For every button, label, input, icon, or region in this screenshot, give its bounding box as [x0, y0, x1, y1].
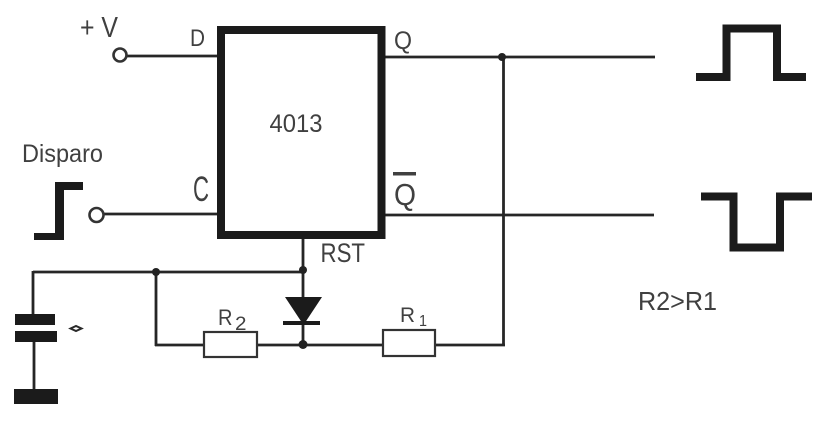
svg-text:R: R	[400, 304, 415, 327]
svg-text:C: C	[193, 170, 209, 209]
svg-text:+ V: + V	[80, 12, 119, 44]
svg-text:4013: 4013	[270, 110, 323, 138]
svg-text:Q: Q	[394, 177, 416, 212]
svg-text:R2>R1: R2>R1	[638, 286, 717, 316]
svg-text:D: D	[190, 25, 205, 52]
svg-text:Disparo: Disparo	[22, 140, 103, 168]
svg-text:1: 1	[419, 313, 427, 330]
svg-text:Q: Q	[394, 27, 412, 55]
svg-text:R: R	[218, 305, 233, 330]
svg-text:2: 2	[235, 314, 247, 335]
svg-text:RST: RST	[321, 238, 366, 268]
